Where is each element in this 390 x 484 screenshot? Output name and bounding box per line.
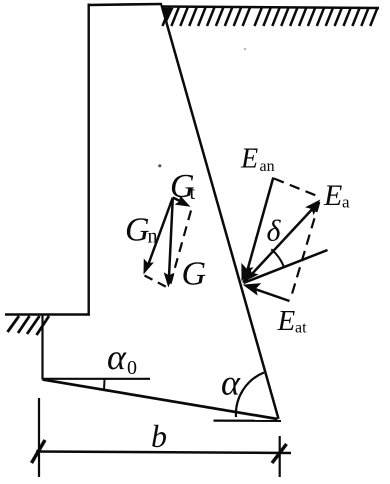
alpha0 angle tick: [103, 380, 106, 391]
parallelogram dashed right side G: [170, 211, 191, 287]
svg-text:t: t: [190, 182, 196, 204]
ground hatches top: [163, 7, 378, 26]
arrowhead G: [163, 272, 175, 288]
svg-text:G: G: [125, 212, 150, 249]
alpha0 horizontal reference: [43, 378, 151, 380]
alpha angle arc: [236, 373, 264, 418]
delta angle arc: [271, 249, 284, 267]
svg-text:a: a: [342, 193, 350, 212]
wall-back normal line: [244, 250, 328, 283]
svg-text:α: α: [107, 337, 127, 377]
arrowhead Ea at wall point: [237, 266, 258, 288]
dimension extension right: [279, 436, 281, 477]
vector Eat shaft: [249, 287, 290, 301]
arrowhead Ean at wall point: [235, 263, 253, 284]
vector Ea shaft: [244, 204, 317, 283]
faint speck top: [244, 48, 247, 51]
vector Ean shaft: [246, 178, 274, 278]
vector Gt shaft: [173, 198, 186, 205]
toe front face: [41, 315, 43, 380]
ground line left of wall: [5, 313, 90, 316]
svg-text:at: at: [295, 320, 307, 337]
svg-text:0: 0: [127, 357, 137, 379]
svg-text:an: an: [260, 158, 275, 175]
svg-text:b: b: [151, 418, 167, 454]
parallelogram dashed right side E: [291, 202, 320, 299]
ground hatch left 3: [27, 316, 40, 334]
arrowhead Ea outer: [305, 196, 324, 216]
arrowhead Gn: [138, 259, 153, 277]
ground hatch left 1: [8, 316, 20, 332]
vertex horizontal reference: [214, 419, 282, 421]
ground hatch left 2: [18, 316, 30, 333]
wall back incline: [162, 5, 279, 419]
dimension extension left: [38, 398, 40, 477]
svg-text:δ: δ: [267, 215, 282, 248]
arrowhead Gt: [175, 195, 193, 212]
dimension line b: [36, 452, 291, 454]
svg-text:α: α: [221, 363, 241, 403]
svg-text:E: E: [323, 179, 342, 212]
vector Gn shaft: [147, 198, 173, 269]
speck near Gt: [158, 164, 161, 167]
corner hatch wedge: [163, 8, 174, 24]
base line: [43, 380, 278, 420]
wall top edge: [89, 4, 163, 5]
ground hatch left 4: [37, 316, 50, 335]
svg-text:G: G: [182, 256, 207, 293]
ground surface line top: [162, 7, 380, 9]
dimension tick right: [272, 444, 287, 463]
parallelogram dashed bottom side G: [145, 276, 168, 288]
vector G shaft: [169, 198, 173, 282]
wall left face: [87, 4, 89, 316]
svg-text:E: E: [277, 305, 296, 337]
svg-text:n: n: [148, 226, 158, 248]
arrowhead Eat at wall point: [241, 278, 261, 295]
dimension tick left: [32, 440, 46, 463]
parallelogram dashed top side E: [274, 179, 319, 197]
svg-text:E: E: [240, 144, 258, 175]
